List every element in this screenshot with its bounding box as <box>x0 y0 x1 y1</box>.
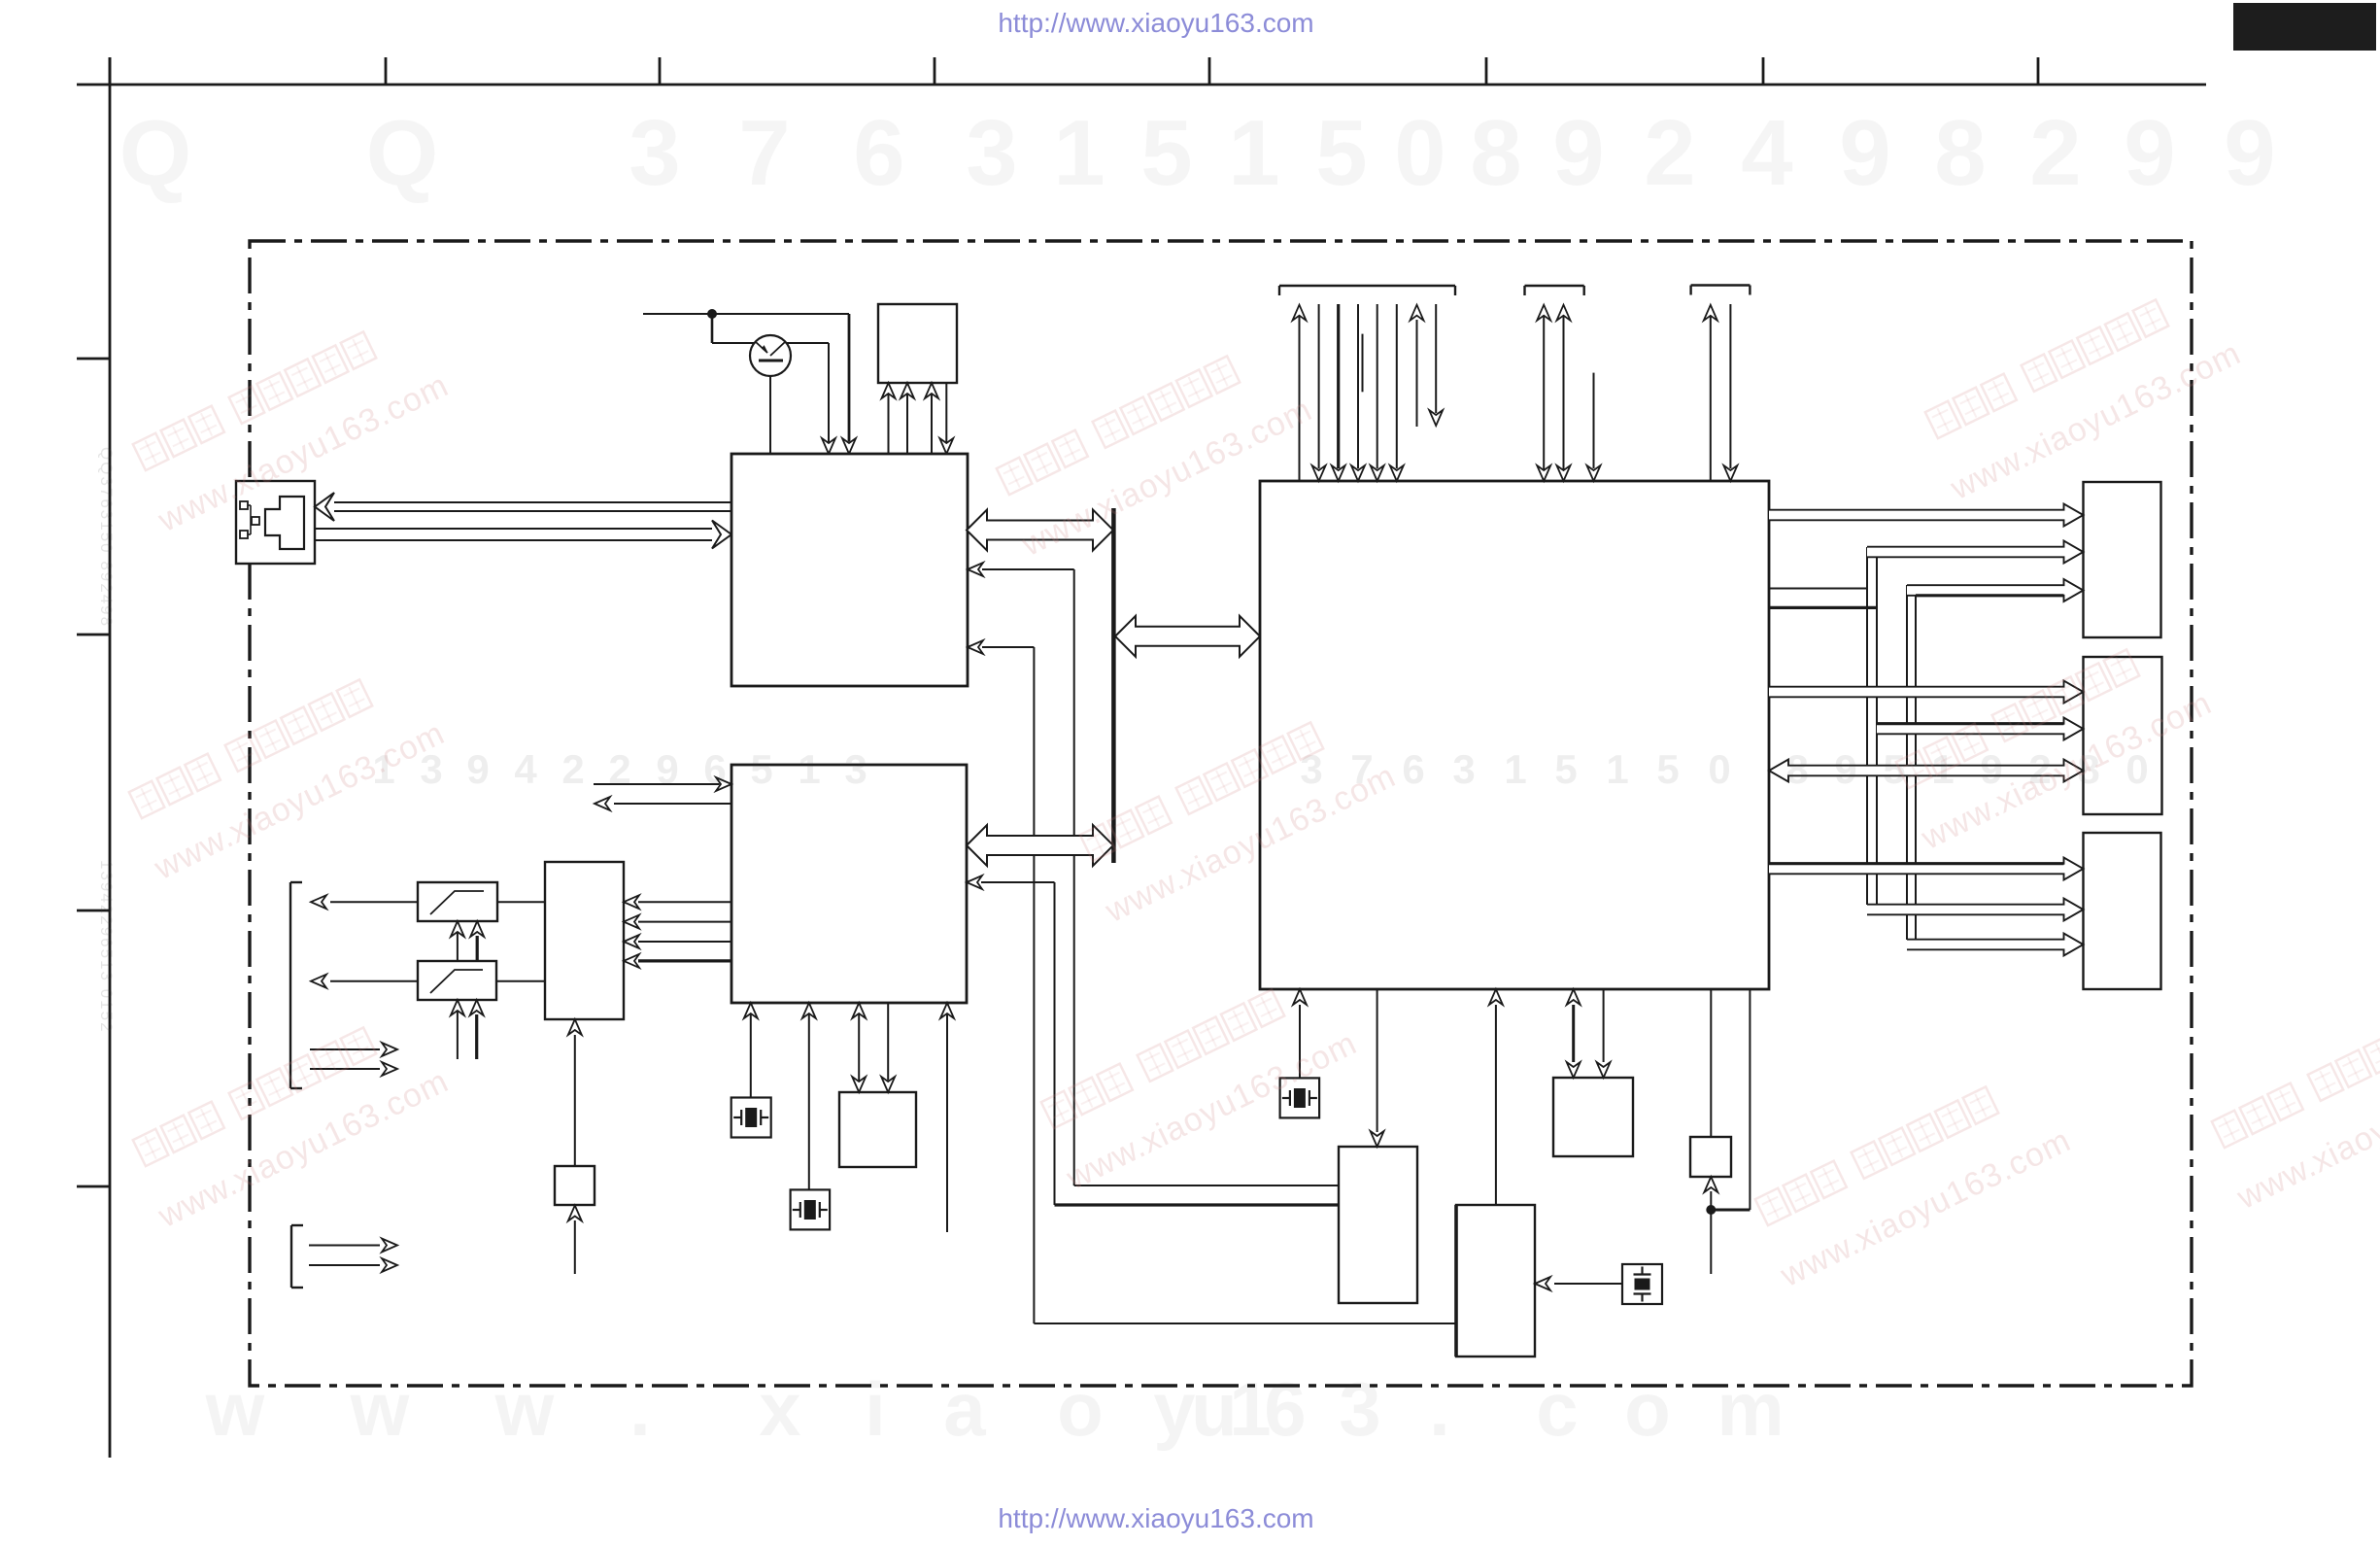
arrow U3 top G (up, short) <box>1411 305 1424 427</box>
arrow U3 to S2 (down) <box>1597 989 1611 1078</box>
arrow U2 to S1 (bidirectional) <box>852 1003 866 1092</box>
svg-text:o: o <box>1057 1366 1104 1452</box>
bus U3 to R1 line1 <box>1769 504 2084 527</box>
junction dot S3 net <box>1706 1205 1716 1215</box>
arrow U3 top L (up) <box>1704 305 1717 481</box>
svg-text:6: 6 <box>1264 1366 1306 1452</box>
faint top serial digits row <box>119 101 2276 205</box>
arrow B1 to U3 <box>1489 989 1503 1205</box>
arrow U3 down to A1 <box>1371 989 1384 1147</box>
main bus bar <box>1111 508 1116 863</box>
arrow T1 input 1 from U1 <box>882 383 896 454</box>
arrow out group1 line1 <box>310 1043 397 1056</box>
top ruler tick 5 <box>1208 57 1211 85</box>
top ruler tick 8 <box>2037 57 2040 85</box>
wire riser x1064 <box>1033 647 1035 1323</box>
bracket top group 1 <box>1279 286 1455 295</box>
wire riser x1064 to B1 <box>1034 1323 1456 1324</box>
svg-text:Q: Q <box>366 101 439 205</box>
faint left margin vertical text 2 <box>97 860 116 1034</box>
left ruler tick 1 <box>77 358 110 361</box>
wire bus J1 to U1 (upper pair, arrow to J1) <box>315 493 731 521</box>
wire arrow into U2 right <box>967 876 1055 889</box>
svg-text:5: 5 <box>1554 746 1577 792</box>
svg-text:.: . <box>1429 1366 1450 1452</box>
arrow U3 top M (down) <box>1723 304 1737 481</box>
arrow U3 top H (down, short) <box>1429 304 1443 426</box>
bus U3 to R2 (bidirectional) <box>1769 760 2084 782</box>
wire arrow into U1 right upper <box>968 563 1074 576</box>
faint middle serial digits row <box>372 746 2148 792</box>
pink watermark stamp 9 <box>1746 1064 2076 1294</box>
arrow out of U2 left <box>595 797 731 810</box>
svg-text:4: 4 <box>514 746 537 792</box>
pink watermark stamp 3 <box>123 1005 454 1235</box>
wire FL1 to M1 <box>497 901 545 903</box>
svg-text:0: 0 <box>1708 746 1730 792</box>
connector J1 outer box <box>236 481 315 564</box>
arrow U3 top B (down) <box>1312 304 1326 481</box>
svg-text:Q: Q <box>119 101 192 205</box>
svg-text:6: 6 <box>853 101 904 205</box>
wire U2 to M1 line 2 <box>624 915 731 929</box>
arrow U3 top K (down, short) <box>1587 373 1601 481</box>
block M1 (switch) <box>545 862 624 1019</box>
pink watermark stamp 4 <box>987 333 1317 564</box>
wire channel B right <box>1915 596 1917 949</box>
crystal X4 <box>1280 1078 1320 1117</box>
arrow into S3 bottom <box>1704 1177 1717 1210</box>
filter FL2 <box>418 961 496 1000</box>
svg-text:w: w <box>350 1366 410 1452</box>
wire top rail drop to U1 (bold) <box>842 314 856 454</box>
svg-text:3: 3 <box>1339 1366 1380 1452</box>
pink watermark stamp 10 <box>2202 986 2380 1217</box>
block R1 (output driver) <box>2084 482 2161 637</box>
svg-text:5: 5 <box>1315 101 1367 205</box>
svg-text:5: 5 <box>1656 746 1679 792</box>
svg-text:9: 9 <box>2224 101 2275 205</box>
svg-text:2: 2 <box>561 746 584 792</box>
wire U3 to S3 <box>1710 989 1712 1137</box>
svg-text:x: x <box>759 1366 800 1452</box>
top blue URL watermark <box>998 8 1313 38</box>
transistor Q1 internals <box>756 342 785 361</box>
arrow crystal X1 to U2 <box>744 1003 758 1098</box>
svg-text:9: 9 <box>1834 746 1856 792</box>
svg-text:8: 8 <box>1470 101 1521 205</box>
bus chB to R1 (bold lower) <box>1907 579 2084 601</box>
wire S3 net down <box>1710 1210 1712 1274</box>
pink watermark stamp 1 <box>123 309 454 539</box>
svg-text:2: 2 <box>1644 101 1695 205</box>
wire channel A left <box>1866 547 1868 905</box>
top ruler tick 7 <box>1762 57 1765 85</box>
wire S3 net to U3 (bold L) <box>1711 989 1750 1210</box>
arrow into FL2 bottom 2 (bold) <box>470 1000 484 1059</box>
stub line near arrow D <box>1362 334 1364 393</box>
svg-text:w: w <box>494 1366 555 1452</box>
arrow S4 to M1 <box>568 1019 582 1166</box>
block S1 (reset IC) <box>839 1092 916 1167</box>
bus chA to R3 <box>1867 899 2084 921</box>
wire riser x1085 <box>1054 882 1056 1205</box>
top ruler tick 6 <box>1485 57 1488 85</box>
black title block (top-right) <box>2233 3 2376 51</box>
svg-text:i: i <box>865 1366 886 1452</box>
arrow U3 top C (down bold) <box>1332 304 1345 481</box>
wire U2 to S1 with arrow down <box>881 1003 895 1092</box>
wire FL2 to M1 <box>496 980 545 982</box>
svg-text:9: 9 <box>2124 101 2175 205</box>
svg-text:.: . <box>629 1366 651 1452</box>
wire channel B left <box>1906 585 1908 940</box>
arrow U3 top I (bidirectional) <box>1537 305 1550 481</box>
bracket top group 3 <box>1691 286 1751 295</box>
bracket group 1 <box>290 882 302 1088</box>
arrow into FL1 bottom 1 <box>451 921 464 961</box>
svg-text:1: 1 <box>1228 101 1279 205</box>
svg-text:QQ3763150 892498: QQ3763150 892498 <box>97 447 116 628</box>
top ruler line <box>77 84 2206 86</box>
svg-text:a: a <box>943 1366 986 1452</box>
svg-text:5: 5 <box>750 746 772 792</box>
svg-text:13942296513 0152: 13942296513 0152 <box>97 860 116 1034</box>
pink watermark stamp 7 <box>1916 277 2246 507</box>
svg-text:9: 9 <box>1552 101 1604 205</box>
svg-text:http://www.xiaoyu163.com: http://www.xiaoyu163.com <box>998 1503 1313 1533</box>
wire U2 to M1 line 1 <box>624 895 731 909</box>
bus chA to R2 (bold upper) <box>1877 718 2084 740</box>
crystal X3 <box>1622 1264 1662 1304</box>
wire channel A right <box>1876 557 1878 914</box>
svg-text:9: 9 <box>1839 101 1890 205</box>
pink watermark stamp 2 <box>119 657 450 887</box>
svg-text:2: 2 <box>2029 101 2081 205</box>
filter FL1 <box>418 882 497 921</box>
arrow T1 output to U1 <box>939 383 953 454</box>
left ruler tick 2 <box>77 634 110 636</box>
bracket group 2 <box>291 1225 303 1288</box>
arrow FL1 output left <box>311 895 418 909</box>
svg-text:3: 3 <box>1452 746 1475 792</box>
svg-text:2: 2 <box>608 746 630 792</box>
svg-text:4: 4 <box>1741 101 1792 205</box>
arrow crystal X4 to U3 <box>1293 989 1307 1078</box>
wire channel feed thin <box>1769 588 1867 590</box>
svg-text:6: 6 <box>703 746 726 792</box>
wire Q1 emitter to U1 <box>769 376 771 454</box>
pink watermark stamp 5 <box>1071 700 1401 930</box>
svg-text:1: 1 <box>1606 746 1628 792</box>
block A1 (display driver) <box>1339 1147 1417 1303</box>
arrow into FL1 bottom 2 (bold) <box>470 921 484 961</box>
arrow U3 top E (down) <box>1371 304 1384 481</box>
wire U2 to M1 line 4 (bold) <box>624 954 731 968</box>
arrow out group1 line2 <box>310 1062 397 1076</box>
block U2 (audio DSP) <box>731 765 967 1003</box>
bus U1 to main bus (bidirectional) <box>967 510 1113 551</box>
svg-text:5: 5 <box>1140 101 1192 205</box>
svg-text:1: 1 <box>1504 746 1526 792</box>
top ruler tick 2 <box>385 57 388 85</box>
svg-text:y: y <box>1153 1366 1195 1452</box>
wire junction to transistor Q1 <box>712 314 755 343</box>
wire channel feed bold <box>1769 606 1877 609</box>
top ruler tick 4 <box>934 57 936 85</box>
arrow into FL2 bottom 1 <box>451 1000 464 1059</box>
faint left margin vertical text 1 <box>97 447 116 628</box>
wire into A1 upper (from riser x1106) <box>1074 1185 1339 1186</box>
arrow T1 input 2 from U1 <box>901 383 914 454</box>
bus chB to R3 <box>1907 934 2084 956</box>
block B1 (front panel) <box>1456 1205 1535 1357</box>
svg-text:8: 8 <box>1785 746 1808 792</box>
block R2 (output driver) <box>2084 657 2162 814</box>
wire riser x1106 <box>1073 569 1075 1185</box>
svg-text:1: 1 <box>1053 101 1105 205</box>
svg-text:http://www.xiaoyu163.com: http://www.xiaoyu163.com <box>998 8 1313 38</box>
bracket top group 2 <box>1525 286 1584 295</box>
block S2 (memory) <box>1553 1078 1633 1156</box>
block U3 (system control MCU) <box>1260 481 1769 989</box>
junction dot <box>707 309 717 319</box>
bus chA to R1 <box>1867 541 2084 564</box>
arrow X3 to B1 <box>1535 1277 1622 1290</box>
arrow into S4 bottom <box>568 1206 582 1275</box>
wire into A1 lower (bold, from riser x1085) <box>1055 1203 1340 1206</box>
wire arrow into U1 right lower <box>968 640 1034 654</box>
arrow into U2 top-left <box>594 777 731 791</box>
svg-text:9: 9 <box>466 746 489 792</box>
bus U3 to R3 (bold upper) <box>1769 858 2084 880</box>
bus bar to main IC (bidirectional) <box>1115 616 1260 657</box>
arrow out group2 line2 <box>309 1258 397 1272</box>
connector J1 jack outline <box>265 497 304 549</box>
svg-text:7: 7 <box>738 101 790 205</box>
connector J1 pin squares <box>240 501 259 538</box>
block R3 (output driver) <box>2084 833 2161 989</box>
arrow U3 to S2 (bidirectional bold) <box>1567 989 1581 1078</box>
wire top rail <box>643 313 849 315</box>
left ruler tick 3 <box>77 910 110 912</box>
block T1 <box>878 304 957 383</box>
block S3 (regulator) <box>1690 1137 1731 1177</box>
arrow into U2 bottom right <box>940 1003 954 1232</box>
arrow U3 top D (down) <box>1351 304 1365 481</box>
crystal X1 <box>731 1098 771 1138</box>
svg-text:9: 9 <box>656 746 678 792</box>
svg-text:8: 8 <box>1934 101 1986 205</box>
left ruler vertical line <box>109 57 112 1458</box>
arrow crystal X2 to U2 <box>802 1003 816 1189</box>
svg-text:5: 5 <box>1883 746 1905 792</box>
transistor Q1 circle <box>750 335 791 376</box>
svg-text:w: w <box>205 1366 265 1452</box>
block U1 (digital interface IC) <box>731 454 968 686</box>
pink watermark stamp 6 <box>1032 967 1362 1197</box>
arrow U3 top F (down) <box>1390 304 1404 481</box>
arrow U3 top A (up) <box>1293 305 1307 481</box>
bus U2 to main bus (bidirectional) <box>967 825 1113 866</box>
top ruler tick 3 <box>659 57 662 85</box>
svg-text:m: m <box>1717 1366 1784 1452</box>
wire bus J1 to U1 (lower pair, arrow to U1) <box>315 521 731 549</box>
left ruler tick 4 <box>77 1185 110 1188</box>
svg-text:6: 6 <box>1402 746 1424 792</box>
svg-text:c: c <box>1536 1366 1578 1452</box>
crystal X2 <box>791 1189 831 1229</box>
arrow FL2 output left <box>311 975 418 988</box>
wire U2 to M1 line 3 <box>624 935 731 948</box>
svg-text:o: o <box>1624 1366 1671 1452</box>
pink watermark stamp 8 <box>1887 627 2217 857</box>
svg-text:3: 3 <box>966 101 1017 205</box>
arrow T1 input 3 from U1 <box>925 383 938 454</box>
svg-text:0: 0 <box>1394 101 1445 205</box>
wire Q1 collector to U1 <box>787 343 835 454</box>
svg-text:3: 3 <box>629 101 680 205</box>
arrow out group2 line1 <box>309 1239 397 1253</box>
dash-dot board outline <box>250 241 2192 1386</box>
faint bottom www watermark <box>205 1366 1785 1452</box>
top ruler tick 1 <box>109 57 112 85</box>
block S4 <box>555 1166 595 1205</box>
svg-text:3: 3 <box>844 746 867 792</box>
bottom blue URL watermark <box>998 1503 1313 1533</box>
bus U3 to R2 <box>1769 681 2084 704</box>
svg-text:1: 1 <box>798 746 820 792</box>
arrow U3 top J (bidirectional) <box>1557 305 1571 481</box>
